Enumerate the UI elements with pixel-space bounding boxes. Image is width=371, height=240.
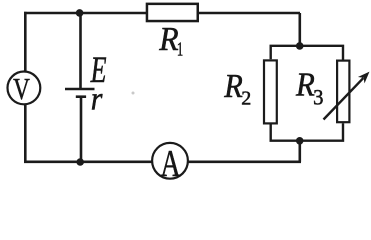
label R1: [158, 21, 178, 58]
wire bottom right (ammeter to right branch): [187, 161, 301, 164]
svg-text:R: R: [295, 66, 315, 104]
svg-text:V: V: [13, 72, 30, 106]
battery long plate (positive): [65, 88, 95, 90]
wire top (node between battery+voltmeter and R1): [24, 12, 300, 15]
label R2: [223, 68, 242, 105]
wire right upper (top wire down to parallel node): [298, 13, 301, 46]
svg-text:A: A: [160, 143, 180, 182]
ammeter A (circle): [152, 143, 188, 179]
svg-text:2: 2: [241, 88, 251, 110]
wire bottom left (to ammeter): [24, 161, 153, 164]
voltmeter V (circle): [8, 72, 41, 105]
svg-text:R: R: [158, 21, 178, 58]
battery short plate (negative): [76, 95, 86, 98]
ammeter letter A: [160, 143, 180, 185]
wire parallel top bar with corner stubs: [271, 46, 343, 60]
junction dot parallel bottom node: [296, 137, 304, 145]
wire left lower (voltmeter to bottom wire): [24, 105, 27, 162]
svg-text:r: r: [91, 80, 103, 117]
svg-text:1: 1: [177, 37, 183, 60]
label R3: [295, 66, 315, 104]
voltmeter letter V: [13, 72, 30, 106]
wire parallel bottom bar with corner stubs: [271, 123, 343, 140]
rheostat R3 (right vertical box): [337, 61, 349, 123]
resistor R2 (left vertical box): [264, 60, 277, 123]
junction dot bottom battery node: [76, 158, 84, 166]
svg-text:R: R: [223, 68, 242, 105]
scan speck: [132, 92, 135, 95]
svg-text:3: 3: [313, 85, 323, 110]
junction dot top battery node: [76, 9, 84, 17]
wire right lower (parallel node down to bottom wire): [298, 140, 301, 162]
label E (emf): [90, 49, 107, 89]
label r of battery: [91, 80, 103, 117]
resistor R1 (box on top wire): [147, 4, 198, 21]
wire left upper (top wire to voltmeter): [24, 12, 27, 71]
wire battery branch upper (top node to battery plate): [79, 13, 82, 88]
wire battery branch lower (battery to bottom node): [80, 98, 83, 163]
rheostat R3 arrow: [324, 72, 370, 120]
junction dot parallel top node: [296, 42, 304, 50]
